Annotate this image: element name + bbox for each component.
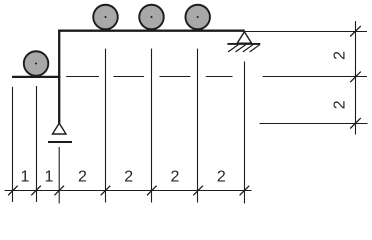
tick at x=151.8: [147, 186, 157, 196]
bottom dimension line: [5, 190, 252, 192]
tick at y=76.5 (lower beam level): [350, 72, 361, 83]
wire: extension line at x=105.5: [105, 49, 107, 203]
wheel load W1 on lower beam: [24, 51, 49, 76]
pin support A (hatched) under right end of top beam: [227, 32, 260, 52]
lower-left beam (thick horizontal member): [12, 76, 60, 78]
vertical member (thick column): [58, 30, 60, 124]
wire: extension line at x=244.5: [244, 62, 246, 204]
tick at x=12.9 (span origin): [8, 186, 18, 196]
wire: right extension line at bottom level: [260, 123, 368, 125]
svg-text:1: 1: [45, 169, 54, 186]
wheel load W4 on top beam: [185, 5, 210, 30]
svg-text:2: 2: [332, 51, 349, 60]
wire: extension line at x=59.2: [58, 147, 60, 204]
wire: dashed reference line segment 2: [113, 76, 144, 78]
svg-text:2: 2: [332, 100, 349, 109]
tick at x=59.2: [54, 186, 64, 196]
wire: dashed reference line at lower beam level, segment 1: [66, 76, 99, 78]
wire: extension line at x=12.5: [12, 87, 14, 202]
wire: thin extension of top beam to right dimension line: [245, 31, 367, 33]
wire: extension line at x=197.5: [197, 49, 199, 203]
wire: dashed reference line segment 3: [160, 76, 191, 78]
svg-text:2: 2: [78, 169, 87, 186]
wire: extension line at x=151.5: [151, 49, 153, 203]
wheel load W3 on top beam: [139, 5, 164, 30]
tick at x=244.4: [240, 186, 250, 196]
tick at x=36.05: [31, 186, 41, 196]
wire: dashed reference line segment 4: [206, 76, 233, 78]
roller support B at bottom of vertical member: [48, 123, 72, 142]
tick at x=105.5: [101, 186, 111, 196]
svg-text:1: 1: [21, 169, 30, 186]
tick at x=198.1: [193, 186, 203, 196]
tick at y=31.5 (top beam level): [350, 26, 361, 37]
tick at y=123.5 (support base level): [350, 118, 361, 129]
top beam (thick horizontal member): [58, 30, 245, 32]
svg-text:2: 2: [171, 169, 180, 186]
svg-text:2: 2: [124, 169, 133, 186]
wire: extension line at x=36.5: [36, 86, 38, 202]
wheel load W2 on top beam: [93, 5, 118, 30]
svg-text:2: 2: [217, 169, 226, 186]
wire: right extension line at mid level: [263, 76, 368, 78]
right vertical dimension line: [355, 21, 357, 135]
